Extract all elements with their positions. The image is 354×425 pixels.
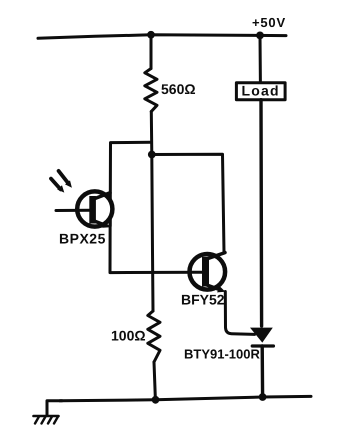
svg-text:Load: Load [242, 83, 280, 99]
svg-text:560Ω: 560Ω [161, 81, 196, 97]
svg-text:BTY91-100R: BTY91-100R [184, 347, 260, 362]
svg-text:100Ω: 100Ω [111, 328, 146, 344]
svg-text:BFY52: BFY52 [181, 292, 225, 308]
svg-text:BPX25: BPX25 [59, 231, 106, 247]
svg-text:+50V: +50V [252, 15, 286, 30]
